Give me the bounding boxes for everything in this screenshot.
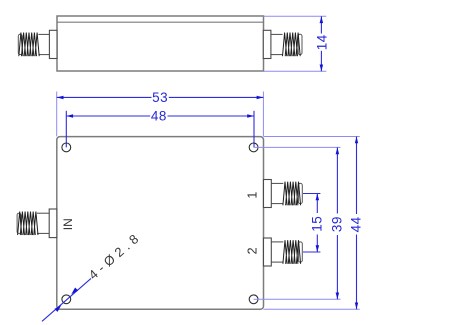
svg-text:14: 14 (314, 34, 329, 50)
svg-text:48: 48 (151, 109, 167, 124)
svg-text:IN: IN (61, 218, 75, 230)
svg-text:15: 15 (309, 216, 324, 232)
svg-text:1: 1 (245, 192, 259, 199)
svg-text:2: 2 (245, 247, 259, 254)
svg-text:53: 53 (152, 90, 168, 105)
svg-text:39: 39 (330, 216, 345, 232)
svg-text:44: 44 (349, 216, 364, 232)
